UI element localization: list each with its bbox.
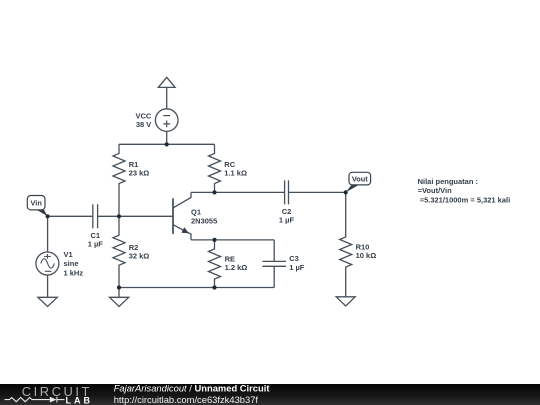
svg-text:=Vout/Vin: =Vout/Vin: [418, 186, 453, 195]
svg-text:1 µF: 1 µF: [289, 263, 305, 272]
svg-text:sine: sine: [64, 259, 79, 268]
svg-text:23 kΩ: 23 kΩ: [129, 169, 150, 178]
svg-text:Vout: Vout: [352, 175, 368, 184]
svg-text:FajarArisandicout / Unnamed Ci: FajarArisandicout / Unnamed Circuit: [114, 383, 270, 394]
svg-text:1.1 kΩ: 1.1 kΩ: [224, 169, 247, 178]
svg-text:32 kΩ: 32 kΩ: [129, 251, 150, 260]
svg-text:1 kHz: 1 kHz: [64, 268, 84, 277]
svg-text:Vin: Vin: [31, 199, 43, 208]
svg-text:C3: C3: [289, 254, 299, 263]
svg-text:C2: C2: [282, 207, 292, 216]
svg-text:1 µF: 1 µF: [88, 240, 104, 249]
svg-text:10 kΩ: 10 kΩ: [356, 251, 377, 260]
svg-text:LAB: LAB: [66, 395, 94, 405]
svg-text:=5.321/1000m = 5,321 kali: =5.321/1000m = 5,321 kali: [420, 195, 511, 204]
svg-text:1 µF: 1 µF: [279, 216, 295, 225]
svg-text:1.2 kΩ: 1.2 kΩ: [225, 263, 248, 272]
svg-text:http://circuitlab.com/ce63fzk4: http://circuitlab.com/ce63fzk43b37f: [114, 394, 259, 405]
svg-text:V1: V1: [64, 250, 73, 259]
svg-text:Nilai penguatan :: Nilai penguatan :: [418, 177, 478, 186]
svg-text:2N3055: 2N3055: [191, 217, 217, 226]
svg-text:38 V: 38 V: [136, 120, 151, 129]
svg-text:C1: C1: [91, 231, 101, 240]
svg-text:Q1: Q1: [191, 208, 201, 217]
